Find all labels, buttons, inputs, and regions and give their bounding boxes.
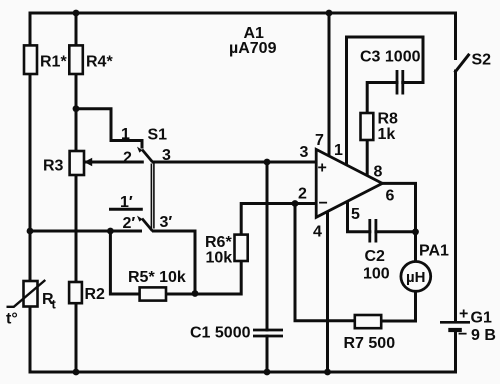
svg-text:3: 3: [162, 147, 171, 164]
svg-text:4: 4: [313, 224, 322, 241]
svg-text:2′: 2′: [123, 215, 136, 232]
node R4 / contact1 branch: [73, 105, 80, 112]
svg-text:R3: R3: [43, 158, 64, 175]
wire S1 contact 1': [111, 208, 142, 211]
wire op-amp pin 7 to top rail: [328, 13, 331, 157]
switch S1 linkage: [151, 164, 154, 229]
svg-text:R7 500: R7 500: [344, 335, 396, 352]
node left rail / bridge: [27, 228, 34, 235]
wire left rail: [29, 13, 32, 372]
wire R5 right to R6 bottom: [166, 261, 241, 294]
svg-text:2: 2: [298, 186, 307, 203]
resistor R4: [69, 45, 83, 74]
wire feedback pin2 to R7: [295, 204, 355, 321]
wire op-amp pin 4 to bottom rail: [326, 213, 329, 372]
switch S2 blade: [456, 55, 469, 72]
svg-text:−: −: [319, 195, 328, 212]
wire C3 left plate to R8: [367, 83, 397, 114]
node bottom rail / R2: [73, 369, 80, 376]
node bottom rail / pin4: [324, 369, 331, 376]
svg-text:R4*: R4*: [86, 54, 113, 71]
wire R5 drop from bridge: [110, 231, 139, 294]
svg-text:R8: R8: [378, 111, 399, 128]
svg-text:PA1: PA1: [419, 243, 449, 260]
svg-text:R6*: R6*: [205, 234, 232, 251]
svg-text:t°: t°: [6, 311, 18, 328]
switch S1 blade (upper): [142, 150, 153, 163]
svg-text:R2: R2: [85, 286, 106, 303]
resistor R6: [235, 235, 248, 261]
svg-text:1: 1: [334, 142, 343, 159]
resistor R7: [355, 315, 381, 328]
node pin2 wire / feedback: [292, 200, 299, 207]
svg-text:1′: 1′: [120, 194, 133, 211]
thermistor Rt diagonal: [7, 280, 46, 307]
svg-text:7: 7: [315, 132, 324, 149]
potentiometer R3 wiper arrow: [84, 158, 92, 166]
svg-text:C1 5000: C1 5000: [190, 325, 251, 342]
resistor R8: [361, 113, 374, 140]
svg-text:3: 3: [300, 144, 309, 161]
wire S1 common 3 to op-amp pin 3: [154, 161, 317, 164]
svg-text:G1: G1: [471, 310, 492, 327]
resistor R2: [69, 282, 82, 303]
node bottom rail / C1: [264, 369, 271, 376]
svg-text:8: 8: [374, 164, 383, 181]
svg-text:2: 2: [123, 150, 132, 167]
node top rail / R4: [73, 10, 80, 17]
wire bottom rail: [30, 371, 456, 374]
wire op-amp pin 1 to C3 loop: [347, 37, 424, 166]
wire R4 branch from top rail: [75, 13, 78, 151]
switch S1 blade (lower): [142, 219, 153, 232]
capacitor C3 plates: [397, 70, 403, 95]
wire R3 wiper to S1 contact 2: [85, 161, 142, 164]
thermistor Rt: [24, 281, 38, 307]
node top rail / pin7: [326, 10, 333, 17]
capacitor C1 plates: [253, 330, 283, 336]
node pin3 wire / C1: [264, 159, 271, 166]
svg-text:1k: 1k: [378, 126, 396, 143]
svg-text:+: +: [459, 306, 468, 323]
svg-text:3′: 3′: [160, 214, 173, 231]
wire op-amp pin 5 to C2: [348, 202, 370, 232]
meter PA1: [401, 262, 431, 292]
wire C1 branch (pin3 wire to bottom rail): [266, 162, 269, 330]
svg-text:+: +: [318, 160, 327, 177]
capacitor C2 plates: [370, 219, 376, 243]
svg-text:6: 6: [386, 188, 395, 205]
svg-text:S1: S1: [148, 127, 168, 144]
svg-text:9 В: 9 В: [471, 327, 496, 344]
potentiometer R3: [70, 151, 84, 175]
svg-text:R1*: R1*: [40, 54, 67, 71]
wire op-amp output pin 6 down to PA1: [382, 183, 415, 261]
wire R3 to R2 to bottom rail: [75, 175, 78, 372]
svg-text:10k: 10k: [206, 250, 233, 267]
wire PA1 bottom to R7 right: [381, 291, 415, 321]
wire C2 right to junction: [376, 230, 416, 233]
wire right side upper (to S2): [454, 13, 457, 59]
wire top rail: [30, 12, 456, 15]
svg-text:5: 5: [351, 206, 360, 223]
node 3' / R5 right: [192, 290, 199, 297]
op-amp A1 triangle: [316, 149, 382, 217]
svg-text:1: 1: [121, 126, 130, 143]
wire to S1 contact 1: [76, 109, 142, 147]
svg-text:R5* 10k: R5* 10k: [128, 269, 186, 286]
node C2 / PA1: [412, 228, 419, 235]
node bridge / R5 drop: [107, 228, 114, 235]
svg-text:µH: µH: [406, 269, 425, 286]
svg-text:t: t: [52, 297, 57, 312]
wire S1 common 3' to R5 junction: [154, 231, 196, 294]
wire R6 top to op-amp pin 2: [241, 204, 316, 235]
resistor R5: [140, 287, 166, 300]
battery G1 plates: [440, 321, 470, 324]
svg-text:µA709: µA709: [229, 40, 277, 57]
svg-text:S2: S2: [472, 52, 492, 69]
wire R8 to op-amp pin 8: [366, 140, 369, 177]
svg-text:100: 100: [363, 266, 390, 283]
wire bridge horizontal (left rail to S1 contact 2'): [30, 230, 141, 233]
wire G1 to bottom rail: [454, 332, 457, 373]
svg-text:C2: C2: [365, 248, 386, 265]
svg-text:C3 1000: C3 1000: [360, 49, 421, 66]
resistor R1: [24, 45, 37, 74]
wire right side lower (S2 to G1): [454, 71, 457, 321]
svg-text:−: −: [458, 326, 467, 343]
